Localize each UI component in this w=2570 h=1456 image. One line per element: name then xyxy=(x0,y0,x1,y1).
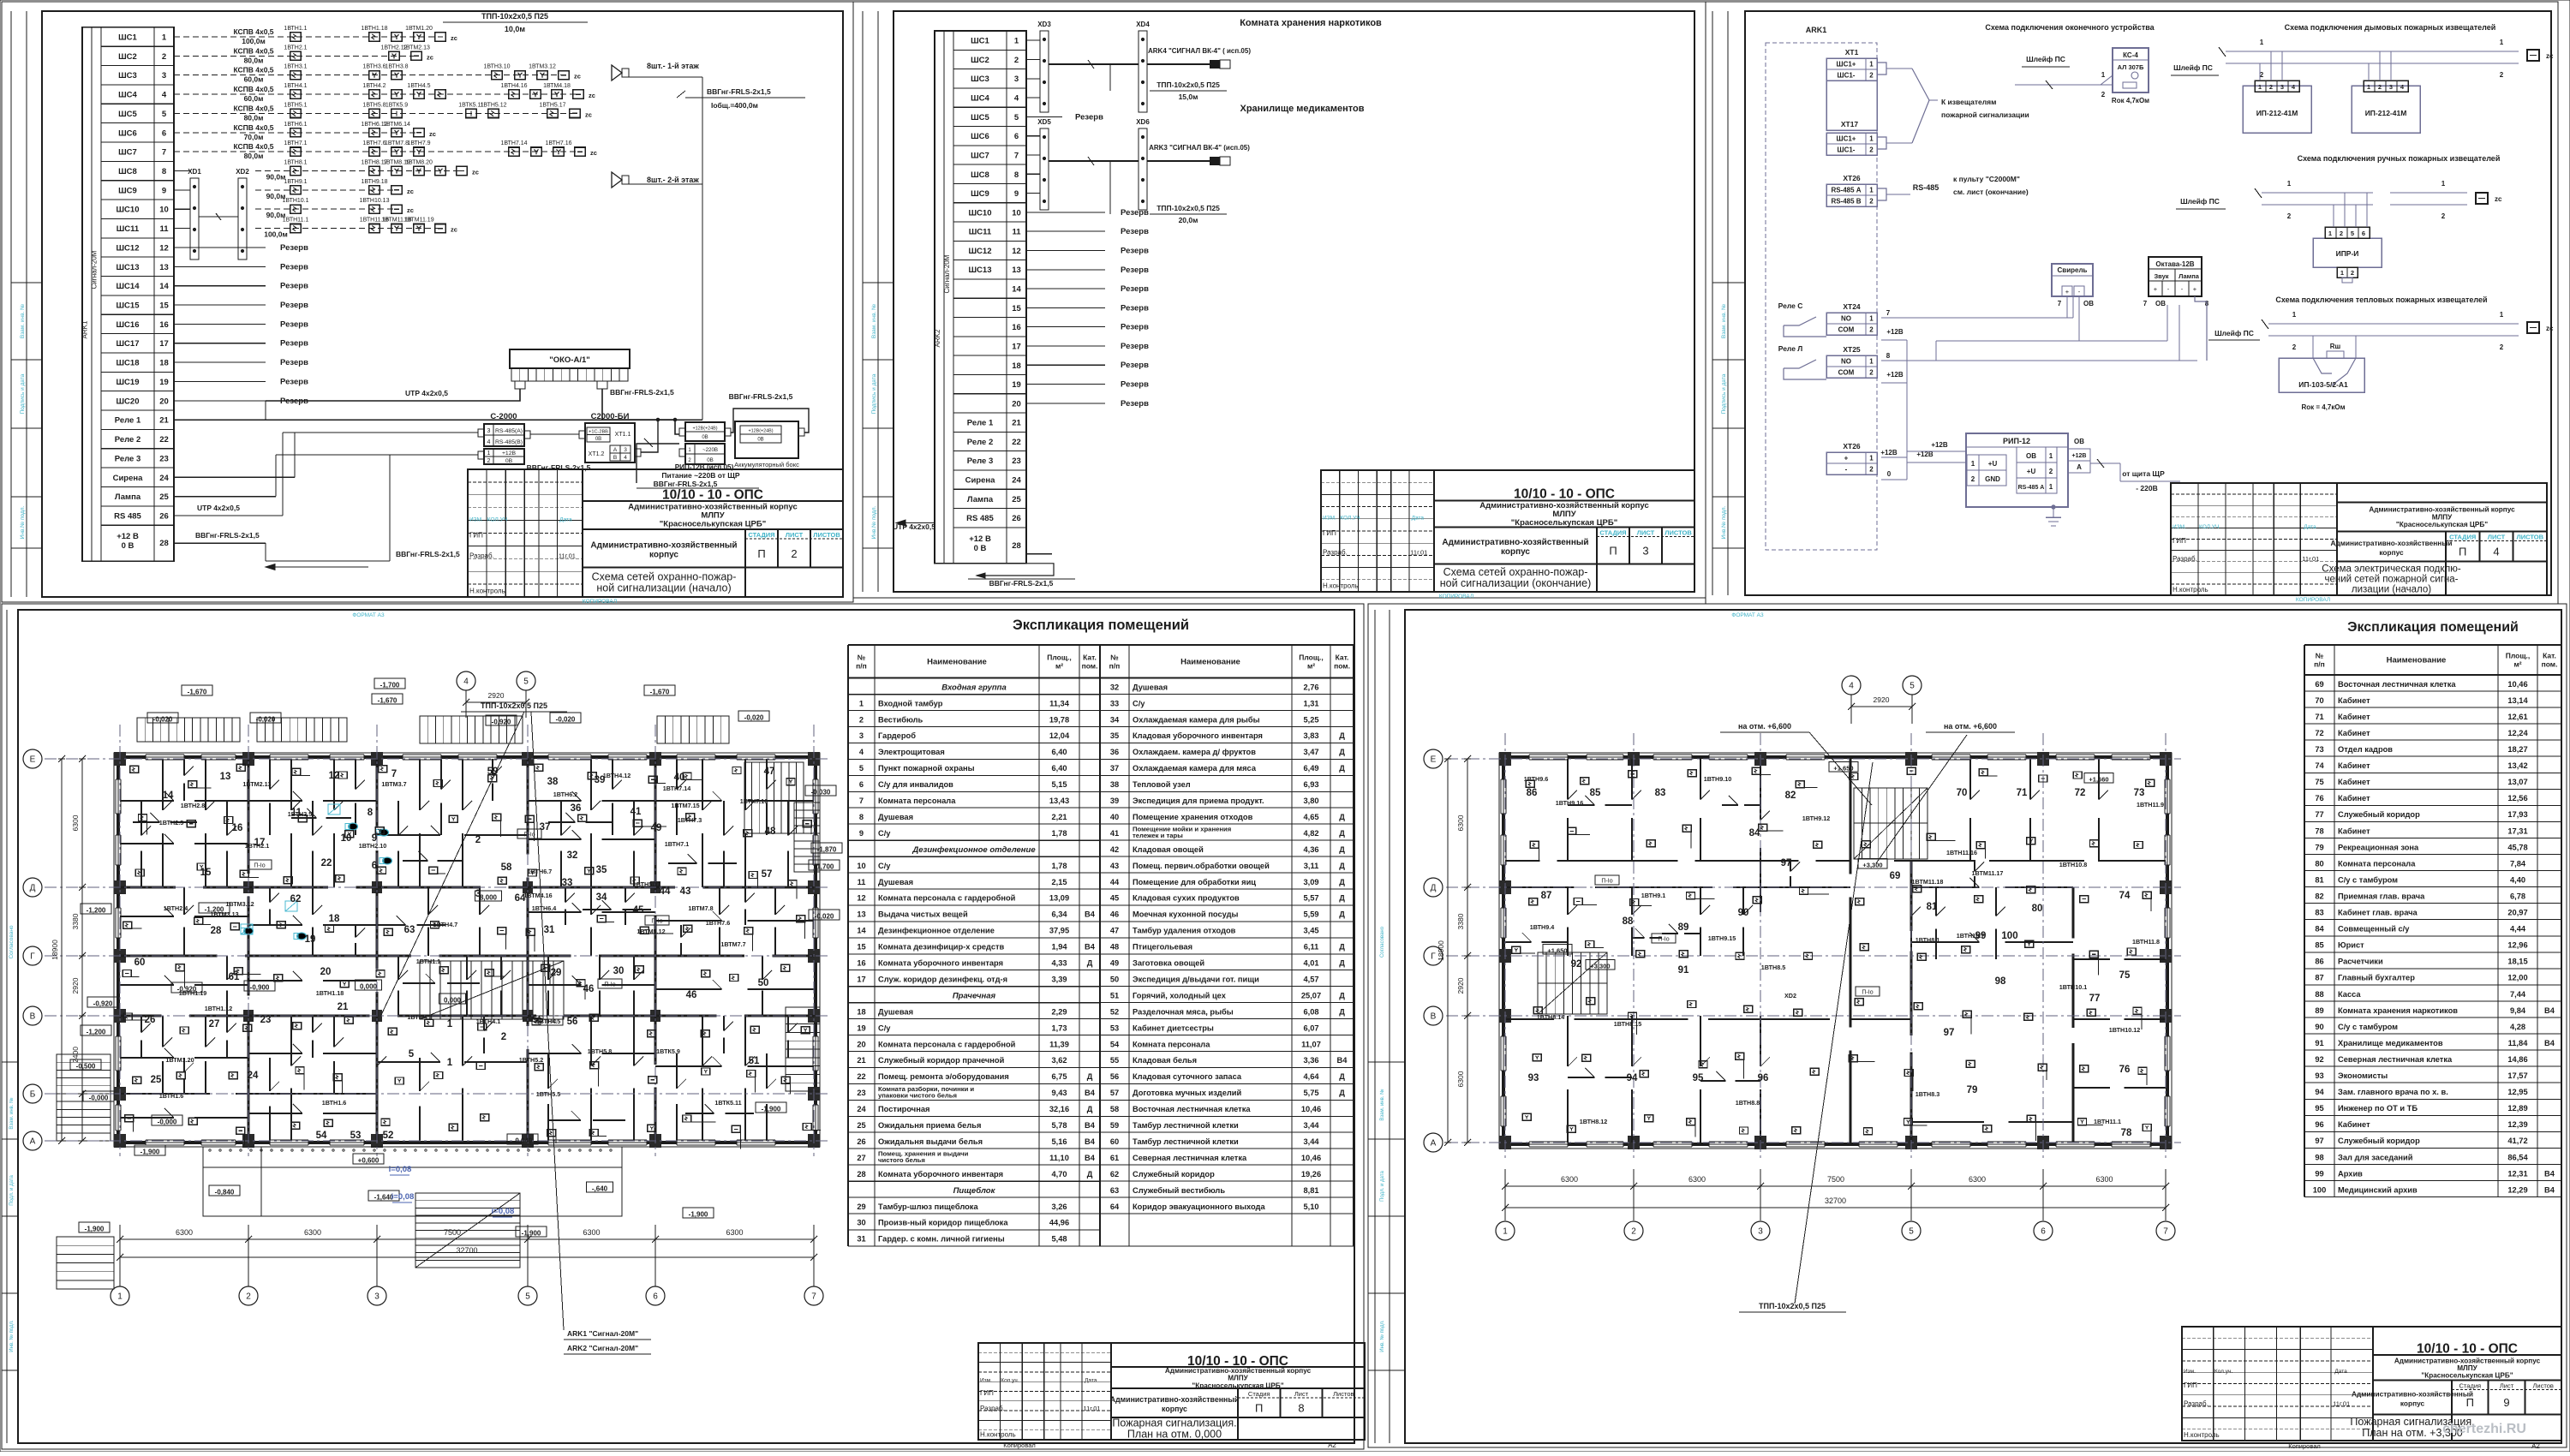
svg-text:В: В xyxy=(30,1012,36,1022)
svg-text:1ВТН7.9: 1ВТН7.9 xyxy=(407,140,430,146)
svg-text:1: 1 xyxy=(2287,180,2292,188)
svg-text:0,000: 0,000 xyxy=(360,983,378,991)
svg-text:i=0,08: i=0,08 xyxy=(492,1207,515,1216)
svg-text:86: 86 xyxy=(2315,958,2323,966)
svg-text:49: 49 xyxy=(1110,959,1119,968)
svg-text:3,80: 3,80 xyxy=(1303,797,1318,805)
svg-text:1ВТМ6.14: 1ВТМ6.14 xyxy=(383,122,410,128)
svg-text:82: 82 xyxy=(2315,892,2323,901)
svg-text:ЛИСТ: ЛИСТ xyxy=(2488,533,2506,540)
svg-text:2: 2 xyxy=(1971,475,1975,483)
svg-text:Душевая: Душевая xyxy=(878,878,913,886)
svg-text:RS-485(A): RS-485(A) xyxy=(495,428,523,434)
svg-text:Инв. № подл.: Инв. № подл. xyxy=(9,1320,15,1352)
svg-text:6300: 6300 xyxy=(2095,1175,2113,1184)
svg-text:1ВТН5.5: 1ВТН5.5 xyxy=(536,1090,561,1098)
svg-text:2: 2 xyxy=(501,1032,506,1042)
svg-text:Инв. № подл.: Инв. № подл. xyxy=(1379,1320,1385,1352)
svg-text:1ВТН1.1: 1ВТН1.1 xyxy=(284,26,307,32)
svg-text:5,78: 5,78 xyxy=(1051,1121,1067,1130)
svg-text:ШС10: ШС10 xyxy=(969,208,992,218)
svg-text:"ОКО-А/1": "ОКО-А/1" xyxy=(549,355,590,365)
svg-text:1: 1 xyxy=(2101,71,2106,79)
svg-text:37: 37 xyxy=(540,822,551,832)
svg-text:20,0м: 20,0м xyxy=(1179,216,1198,224)
svg-text:ГИП: ГИП xyxy=(2173,537,2186,545)
svg-text:0 В: 0 В xyxy=(122,541,134,551)
svg-text:12,95: 12,95 xyxy=(2507,1088,2527,1096)
svg-text:53: 53 xyxy=(350,1131,362,1141)
svg-text:Rок = 4,7кОм: Rок = 4,7кОм xyxy=(2301,403,2345,411)
svg-text:0,000: 0,000 xyxy=(444,997,462,1005)
svg-text:13: 13 xyxy=(857,910,865,919)
svg-text:Комната уборочного инвентаря: Комната уборочного инвентаря xyxy=(878,1170,1003,1179)
svg-text:ЛИСТОВ: ЛИСТОВ xyxy=(813,531,840,539)
svg-text:69: 69 xyxy=(2315,680,2323,689)
svg-text:Рекреационная зона: Рекреационная зона xyxy=(2338,843,2419,851)
svg-text:79: 79 xyxy=(2315,843,2323,851)
svg-text:Подпись и дата: Подпись и дата xyxy=(20,373,26,414)
svg-text:-1,900: -1,900 xyxy=(522,1230,541,1238)
svg-text:1: 1 xyxy=(1869,61,1874,69)
svg-text:1: 1 xyxy=(2328,230,2332,237)
svg-text:9: 9 xyxy=(162,186,166,195)
svg-text:1ВТН7.1: 1ВТН7.1 xyxy=(665,840,690,848)
svg-text:КСПВ 4х0,5: КСПВ 4х0,5 xyxy=(233,66,273,75)
svg-text:11,84: 11,84 xyxy=(2508,1039,2529,1047)
svg-text:+1,650: +1,650 xyxy=(1833,765,1853,773)
svg-text:1,94: 1,94 xyxy=(1051,943,1067,952)
svg-text:1ВТК5.9: 1ВТК5.9 xyxy=(656,1047,680,1055)
svg-text:17,31: 17,31 xyxy=(2507,826,2527,835)
svg-text:13: 13 xyxy=(1012,266,1021,275)
svg-text:13,43: 13,43 xyxy=(1049,797,1069,805)
svg-text:5: 5 xyxy=(1909,1227,1914,1237)
svg-text:2: 2 xyxy=(791,547,797,560)
svg-text:32,16: 32,16 xyxy=(1049,1105,1069,1113)
svg-text:76: 76 xyxy=(2119,1065,2131,1075)
svg-text:73: 73 xyxy=(2134,788,2145,798)
svg-text:24: 24 xyxy=(1012,476,1021,486)
svg-text:Резерв: Резерв xyxy=(1121,323,1149,332)
svg-text:ФОРМАТ А3: ФОРМАТ А3 xyxy=(352,612,385,618)
svg-text:+12В: +12В xyxy=(1886,328,1904,336)
svg-text:12,04: 12,04 xyxy=(1049,731,1070,740)
svg-text:1ВТН8.1: 1ВТН8.1 xyxy=(284,160,307,166)
svg-text:1ВТН9.15: 1ВТН9.15 xyxy=(1708,934,1736,942)
svg-text:Питание ~220В от ЩР: Питание ~220В от ЩР xyxy=(661,471,739,480)
svg-text:Дата: Дата xyxy=(2334,1369,2347,1375)
svg-text:1: 1 xyxy=(2441,180,2446,188)
svg-text:-: - xyxy=(2167,285,2170,293)
svg-text:Схема подключения оконечного у: Схема подключения оконечного устройства xyxy=(1985,23,2155,32)
svg-text:18,15: 18,15 xyxy=(2507,958,2527,966)
svg-text:XD3: XD3 xyxy=(1037,21,1051,28)
svg-text:55: 55 xyxy=(1110,1056,1119,1065)
svg-text:В: В xyxy=(613,455,617,461)
svg-text:22: 22 xyxy=(1012,438,1021,447)
svg-text:57: 57 xyxy=(1110,1089,1119,1097)
svg-text:1ВТН1.6: 1ВТН1.6 xyxy=(159,1092,184,1100)
svg-text:2: 2 xyxy=(1869,146,1874,154)
svg-text:6: 6 xyxy=(859,780,864,789)
svg-text:А: А xyxy=(613,447,618,453)
svg-text:1ВТН11.9: 1ВТН11.9 xyxy=(2137,801,2164,809)
svg-text:1: 1 xyxy=(859,699,864,707)
svg-text:1ВТМ4.3: 1ВТМ4.3 xyxy=(407,1013,432,1021)
svg-text:7,44: 7,44 xyxy=(2510,990,2526,999)
svg-text:79: 79 xyxy=(1967,1085,1978,1095)
svg-text:Входная группа: Входная группа xyxy=(941,683,1007,693)
svg-text:zc: zc xyxy=(574,73,581,81)
svg-text:Д: Д xyxy=(1087,959,1093,968)
svg-text:74: 74 xyxy=(2119,891,2131,901)
svg-text:3,44: 3,44 xyxy=(1303,1121,1319,1130)
svg-text:Приемная глав. врача: Приемная глав. врача xyxy=(2338,892,2425,901)
svg-text:П: П xyxy=(1609,545,1617,558)
svg-text:Экспедиция д/выдачи гот. пищи: Экспедиция д/выдачи гот. пищи xyxy=(1133,976,1259,984)
svg-text:Д: Д xyxy=(1339,813,1345,821)
svg-text:№: № xyxy=(1110,653,1119,661)
svg-text:5,57: 5,57 xyxy=(1303,894,1318,903)
svg-text:8шт.- 1-й этаж: 8шт.- 1-й этаж xyxy=(647,62,699,70)
svg-text:26: 26 xyxy=(159,512,169,522)
svg-text:RS 485: RS 485 xyxy=(966,514,994,523)
svg-text:Реле Л: Реле Л xyxy=(1778,344,1803,353)
svg-text:ШС9: ШС9 xyxy=(118,186,137,195)
svg-text:корпус: корпус xyxy=(2379,548,2404,557)
svg-text:27: 27 xyxy=(209,1019,220,1029)
svg-text:2: 2 xyxy=(1869,72,1874,80)
svg-text:30: 30 xyxy=(613,966,625,976)
svg-text:1ВТН10.8: 1ВТН10.8 xyxy=(2059,861,2087,868)
svg-text:86: 86 xyxy=(1527,788,1538,798)
svg-text:97: 97 xyxy=(1781,858,1792,868)
svg-text:93: 93 xyxy=(2315,1071,2323,1080)
svg-text:15: 15 xyxy=(159,301,169,311)
svg-text:ГИП: ГИП xyxy=(980,1389,994,1397)
svg-text:11: 11 xyxy=(1012,228,1021,237)
svg-text:2920: 2920 xyxy=(488,691,505,700)
svg-text:Ожидальня приема белья: Ожидальня приема белья xyxy=(878,1121,981,1130)
svg-text:Реле 3: Реле 3 xyxy=(115,454,141,463)
svg-text:ИЗМ.: ИЗМ. xyxy=(2173,524,2186,530)
svg-text:8,000: 8,000 xyxy=(480,894,498,902)
svg-text:48: 48 xyxy=(765,826,776,837)
svg-text:ХТ24: ХТ24 xyxy=(1843,302,1861,311)
svg-text:Ожидальня выдачи белья: Ожидальня выдачи белья xyxy=(878,1137,983,1146)
svg-text:Е: Е xyxy=(30,755,36,765)
svg-text:10: 10 xyxy=(1012,208,1021,218)
svg-text:РИП-12: РИП-12 xyxy=(2003,437,2030,445)
svg-text:Северная лестничная клетка: Северная лестничная клетка xyxy=(1133,1154,1247,1162)
svg-text:Разраб.: Разраб. xyxy=(2184,1399,2208,1407)
svg-text:94: 94 xyxy=(1627,1073,1638,1083)
svg-text:ШС13: ШС13 xyxy=(969,266,992,275)
svg-text:99: 99 xyxy=(1975,931,1987,941)
svg-text:2,15: 2,15 xyxy=(1051,878,1067,886)
svg-text:5: 5 xyxy=(1014,113,1019,122)
svg-text:84: 84 xyxy=(2315,925,2324,934)
svg-text:В4: В4 xyxy=(1085,1089,1096,1097)
svg-text:6,40: 6,40 xyxy=(1051,748,1067,756)
svg-text:26: 26 xyxy=(857,1137,865,1146)
svg-text:32700: 32700 xyxy=(456,1246,477,1255)
svg-text:1ВТМ1.20: 1ВТМ1.20 xyxy=(405,26,433,32)
svg-text:34: 34 xyxy=(596,892,607,903)
svg-text:1ВТН11.1: 1ВТН11.1 xyxy=(2094,1118,2121,1125)
svg-text:-0,000: -0,000 xyxy=(158,1119,177,1126)
svg-text:RS-485 А: RS-485 А xyxy=(1831,187,1861,194)
svg-text:-0,020: -0,020 xyxy=(153,716,173,724)
svg-text:-1,200: -1,200 xyxy=(87,907,106,915)
svg-text:Кат.: Кат. xyxy=(2543,652,2556,660)
svg-text:ШС8: ШС8 xyxy=(971,170,989,180)
svg-text:27: 27 xyxy=(857,1154,865,1162)
svg-text:1ВТН4.2: 1ВТН4.2 xyxy=(362,83,385,89)
svg-text:Д: Д xyxy=(1339,991,1345,1000)
svg-text:ЛИСТОВ: ЛИСТОВ xyxy=(1665,529,1692,537)
svg-text:10,46: 10,46 xyxy=(1301,1154,1321,1162)
svg-text:Кабинет: Кабинет xyxy=(2338,713,2370,721)
svg-text:-1,700: -1,700 xyxy=(380,682,400,689)
svg-text:i=0,08: i=0,08 xyxy=(391,1192,415,1202)
svg-text:№: № xyxy=(858,653,866,661)
svg-text:1: 1 xyxy=(2292,311,2297,319)
svg-text:Разделочная мяса, рыбы: Разделочная мяса, рыбы xyxy=(1133,1007,1234,1016)
svg-text:73: 73 xyxy=(2315,745,2323,754)
svg-text:2: 2 xyxy=(2441,212,2446,220)
svg-text:1ВТН8.14: 1ВТН8.14 xyxy=(1537,1013,1564,1021)
svg-text:Кат.: Кат. xyxy=(1083,653,1097,661)
svg-text:Взам. инв. №: Взам. инв. № xyxy=(871,304,877,338)
svg-text:21: 21 xyxy=(1012,419,1021,428)
svg-text:6300: 6300 xyxy=(1561,1175,1578,1184)
svg-text:ARK1: ARK1 xyxy=(81,320,89,338)
svg-text:1ВТМ1.20: 1ВТМ1.20 xyxy=(165,1056,194,1064)
svg-text:П-Iо: П-Iо xyxy=(604,982,615,988)
svg-text:ШС2: ШС2 xyxy=(118,52,137,62)
svg-text:chertezhi.RU: chertezhi.RU xyxy=(2442,1422,2526,1436)
svg-text:25: 25 xyxy=(1012,495,1021,504)
svg-text:85: 85 xyxy=(2315,941,2323,950)
svg-text:74: 74 xyxy=(2315,761,2324,770)
svg-text:0В: 0В xyxy=(595,437,601,442)
svg-text:ГИП: ГИП xyxy=(469,532,483,540)
svg-text:33: 33 xyxy=(562,878,573,888)
svg-text:"Красноселькупская ЦРБ": "Красноселькупская ЦРБ" xyxy=(2396,521,2488,528)
svg-text:1ВТН7.6: 1ВТН7.6 xyxy=(706,919,731,927)
svg-text:ВВГнг-FRLS-2х1,5: ВВГнг-FRLS-2х1,5 xyxy=(729,392,793,401)
svg-text:1ВТН8.12: 1ВТН8.12 xyxy=(1580,1118,1607,1125)
svg-text:Совмещенный с/у: Совмещенный с/у xyxy=(2338,925,2410,934)
svg-text:17,57: 17,57 xyxy=(2507,1071,2527,1080)
svg-text:Служебный вестибюль: Служебный вестибюль xyxy=(1133,1186,1225,1195)
svg-text:22: 22 xyxy=(159,435,169,445)
svg-text:6,07: 6,07 xyxy=(1303,1023,1318,1032)
svg-text:Б: Б xyxy=(30,1090,36,1100)
svg-text:ШС1+: ШС1+ xyxy=(1837,135,1856,143)
svg-text:Кат.: Кат. xyxy=(1336,653,1349,661)
svg-text:Дата: Дата xyxy=(1412,516,1425,522)
svg-text:к пульту "С2000М": к пульту "С2000М" xyxy=(1953,175,2020,183)
svg-text:6: 6 xyxy=(372,861,377,871)
svg-text:3,44: 3,44 xyxy=(1303,1137,1319,1146)
svg-text:58: 58 xyxy=(1110,1105,1119,1113)
svg-text:Резерв: Резерв xyxy=(280,301,308,310)
svg-text:Резерв: Резерв xyxy=(1121,361,1149,370)
svg-text:Д: Д xyxy=(1339,1089,1345,1097)
svg-text:Г: Г xyxy=(1431,952,1436,962)
svg-text:7: 7 xyxy=(162,148,166,158)
svg-text:+3,300: +3,300 xyxy=(1590,963,1610,970)
svg-text:4: 4 xyxy=(2292,83,2296,91)
svg-text:9: 9 xyxy=(1014,189,1019,199)
svg-text:Душевая: Душевая xyxy=(1133,683,1168,691)
svg-text:Свирель: Свирель xyxy=(2058,266,2088,274)
svg-text:23: 23 xyxy=(260,1015,272,1025)
svg-text:Служ. коридор дезинфекц. отд-я: Служ. коридор дезинфекц. отд-я xyxy=(878,976,1007,984)
svg-text:Схема сетей охранно-пожар-: Схема сетей охранно-пожар- xyxy=(592,570,737,582)
svg-text:61: 61 xyxy=(1110,1154,1119,1162)
svg-text:62: 62 xyxy=(290,894,302,904)
svg-text:Листов: Листов xyxy=(2533,1382,2554,1390)
svg-text:Пожарная сигнализация.: Пожарная сигнализация. xyxy=(1112,1417,1236,1429)
svg-text:2: 2 xyxy=(162,52,166,62)
svg-text:6300: 6300 xyxy=(1688,1175,1706,1184)
svg-text:19,26: 19,26 xyxy=(1301,1170,1321,1179)
svg-text:П-Iо: П-Iо xyxy=(1601,879,1612,885)
svg-text:92: 92 xyxy=(2315,1055,2323,1064)
svg-text:Комната хранения наркотиков: Комната хранения наркотиков xyxy=(2338,1006,2458,1015)
svg-text:63: 63 xyxy=(404,925,415,935)
svg-text:2: 2 xyxy=(2292,343,2297,351)
svg-text:Реле 1: Реле 1 xyxy=(115,416,141,426)
svg-text:Инв.№ подл.: Инв.№ подл. xyxy=(1721,505,1727,539)
svg-text:70: 70 xyxy=(1957,788,1968,798)
svg-text:XD1: XD1 xyxy=(188,168,201,176)
svg-text:-0,030: -0,030 xyxy=(811,789,831,797)
svg-text:Подпись и дата: Подпись и дата xyxy=(871,373,877,414)
svg-text:52: 52 xyxy=(1110,1007,1119,1016)
svg-text:К извещателям: К извещателям xyxy=(1941,98,1996,106)
svg-text:Копировал: Копировал xyxy=(1003,1441,1036,1449)
svg-text:47: 47 xyxy=(1110,927,1119,935)
svg-text:Комната персонала: Комната персонала xyxy=(878,797,956,805)
svg-text:60: 60 xyxy=(134,958,146,968)
svg-text:ШС16: ШС16 xyxy=(117,320,140,330)
svg-text:25: 25 xyxy=(151,1075,162,1085)
svg-text:Прачечная: Прачечная xyxy=(953,992,996,1001)
svg-text:20: 20 xyxy=(857,1040,865,1048)
svg-text:13: 13 xyxy=(159,263,169,272)
svg-text:1ВТН2.8: 1ВТН2.8 xyxy=(181,802,206,809)
svg-text:-: - xyxy=(2181,285,2184,293)
svg-text:6: 6 xyxy=(2041,1227,2046,1237)
svg-text:20: 20 xyxy=(1012,399,1021,409)
svg-text:С/у с тамбуром: С/у с тамбуром xyxy=(2338,1023,2398,1031)
svg-text:1ВТН6.2: 1ВТН6.2 xyxy=(553,791,578,798)
svg-text:91: 91 xyxy=(1678,965,1689,976)
svg-text:16: 16 xyxy=(232,823,243,833)
svg-text:ШС19: ШС19 xyxy=(117,378,140,387)
svg-text:Шлейф ПС: Шлейф ПС xyxy=(2026,55,2065,63)
svg-text:1ВТН8.3: 1ВТН8.3 xyxy=(1916,1090,1940,1098)
svg-text:44,96: 44,96 xyxy=(1049,1219,1069,1227)
svg-text:Схема подключения дымовых пожа: Схема подключения дымовых пожарных извещ… xyxy=(2285,23,2496,32)
svg-text:-0,500: -0,500 xyxy=(76,1063,96,1071)
svg-text:1ВТМ4.16: 1ВТМ4.16 xyxy=(523,892,552,899)
svg-text:ШС17: ШС17 xyxy=(117,339,140,349)
svg-text:2,21: 2,21 xyxy=(1051,813,1067,821)
svg-text:83: 83 xyxy=(1655,788,1666,798)
svg-text:Резерв: Резерв xyxy=(1121,227,1149,236)
svg-text:-1,900: -1,900 xyxy=(689,1211,708,1219)
svg-text:"Красноселькупская ЦРБ": "Красноселькупская ЦРБ" xyxy=(1192,1381,1283,1389)
svg-text:COM: COM xyxy=(1838,326,1855,334)
svg-text:12: 12 xyxy=(1012,247,1021,256)
svg-text:4,40: 4,40 xyxy=(2510,875,2525,884)
svg-text:zc: zc xyxy=(585,110,592,118)
svg-text:1ВТН5.12: 1ВТН5.12 xyxy=(480,102,506,108)
svg-text:Дата: Дата xyxy=(559,517,572,523)
svg-text:49: 49 xyxy=(651,823,662,833)
svg-text:97: 97 xyxy=(1944,1028,1955,1038)
svg-text:Тепловой узел: Тепловой узел xyxy=(1133,780,1191,789)
svg-text:Помещение для обработки яиц: Помещение для обработки яиц xyxy=(1133,878,1256,886)
svg-text:Е: Е xyxy=(1431,755,1437,765)
svg-text:1ВТН5.17: 1ВТН5.17 xyxy=(633,880,660,888)
svg-text:11,34: 11,34 xyxy=(1049,699,1070,707)
svg-text:ной сигнализации (начало): ной сигнализации (начало) xyxy=(596,582,731,594)
svg-text:Кабинет: Кабинет xyxy=(2338,729,2370,737)
svg-text:2: 2 xyxy=(2378,83,2382,91)
svg-text:14: 14 xyxy=(163,791,174,801)
svg-text:38: 38 xyxy=(547,777,559,787)
svg-text:1ВТН1.18: 1ВТН1.18 xyxy=(361,26,387,32)
svg-text:UTP 4х2х0,5: UTP 4х2х0,5 xyxy=(197,504,240,512)
svg-text:7: 7 xyxy=(2143,300,2148,307)
svg-text:Резерв: Резерв xyxy=(1121,303,1149,313)
svg-text:19: 19 xyxy=(1012,380,1021,390)
svg-text:Служебный коридор: Служебный коридор xyxy=(1133,1170,1215,1179)
svg-text:КСПВ 4х0,5: КСПВ 4х0,5 xyxy=(233,46,273,55)
svg-text:Схема подключения тепловых пож: Схема подключения тепловых пожарных изве… xyxy=(2275,295,2487,304)
svg-text:2: 2 xyxy=(1869,466,1874,474)
svg-text:тележек и тары: тележек и тары xyxy=(1133,832,1183,839)
svg-text:6300: 6300 xyxy=(1456,815,1465,831)
svg-text:от щита ЩР: от щита ЩР xyxy=(2122,469,2165,478)
svg-text:1: 1 xyxy=(1014,37,1019,46)
svg-text:1ВТН5.17: 1ВТН5.17 xyxy=(539,102,565,108)
svg-text:11г.01: 11г.01 xyxy=(2302,555,2319,563)
svg-text:Листов: Листов xyxy=(1333,1390,1354,1398)
svg-text:-0,900: -0,900 xyxy=(250,984,270,992)
svg-text:4,28: 4,28 xyxy=(2510,1023,2525,1031)
svg-text:ИЗМ.: ИЗМ. xyxy=(1323,516,1336,522)
svg-text:6300: 6300 xyxy=(1969,1175,1986,1184)
svg-text:2: 2 xyxy=(2351,269,2354,277)
svg-text:С/у: С/у xyxy=(878,829,891,838)
svg-text:пожарной сигнализации: пожарной сигнализации xyxy=(1941,110,2029,119)
svg-text:2: 2 xyxy=(2340,230,2343,237)
svg-text:12,61: 12,61 xyxy=(2507,713,2527,721)
svg-text:1ВТН2.5: 1ВТН2.5 xyxy=(159,819,184,826)
svg-text:39: 39 xyxy=(595,775,606,785)
svg-text:11г.01: 11г.01 xyxy=(559,552,576,559)
svg-text:Д: Д xyxy=(1339,894,1345,903)
svg-text:zc: zc xyxy=(590,149,597,157)
